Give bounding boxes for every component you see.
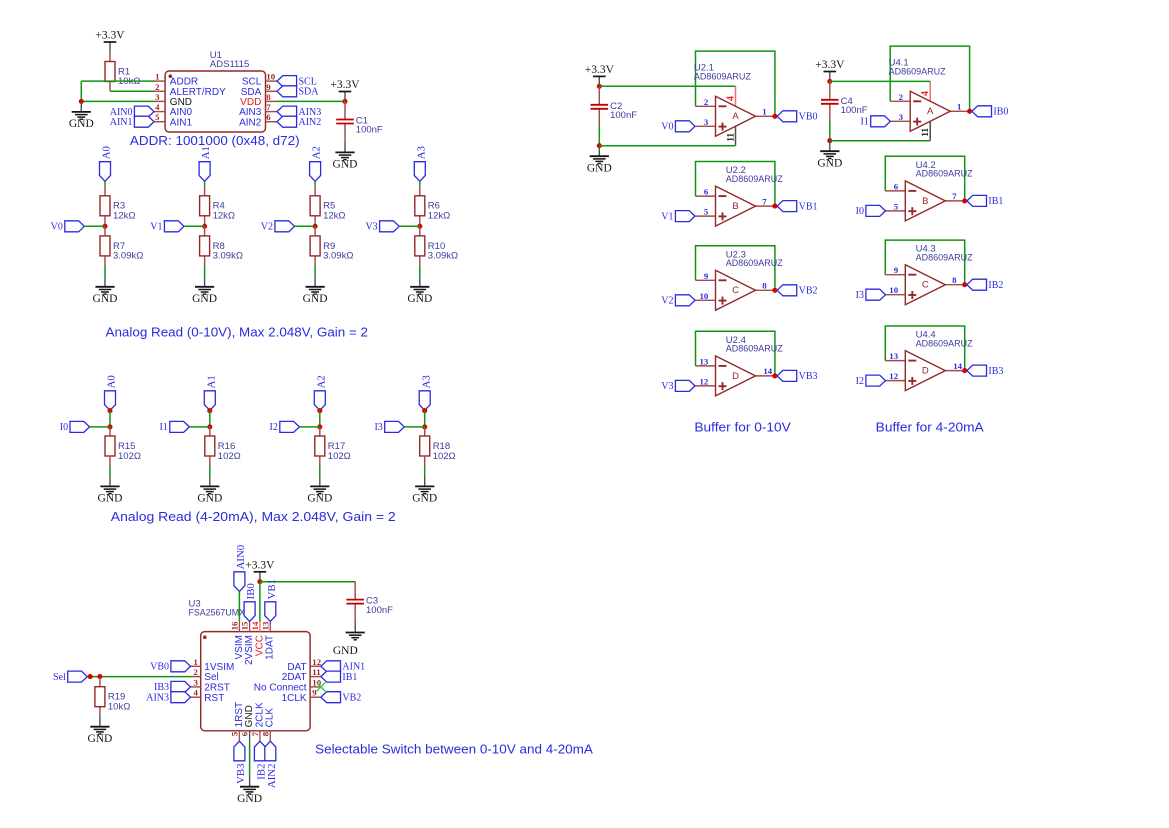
svg-text:2CLK: 2CLK [254,702,265,727]
svg-text:9: 9 [312,688,317,698]
svg-text:AIN1: AIN1 [110,117,133,128]
svg-text:5: 5 [155,112,160,122]
svg-text:A1: A1 [205,375,217,388]
svg-text:2: 2 [193,667,198,677]
svg-text:A0: A0 [101,146,113,159]
svg-text:11: 11 [727,133,737,142]
svg-text:IB1: IB1 [342,672,357,683]
svg-text:10: 10 [700,291,709,301]
svg-text:12kΩ: 12kΩ [323,210,345,221]
svg-text:3.09kΩ: 3.09kΩ [113,251,143,262]
svg-text:GND: GND [197,493,222,505]
svg-text:102Ω: 102Ω [328,451,351,462]
svg-text:A: A [927,106,934,117]
svg-text:GND: GND [333,645,358,657]
svg-text:IB0: IB0 [993,107,1008,118]
svg-text:VB2: VB2 [799,286,818,297]
svg-text:Analog Read (0-10V), Max 2.048: Analog Read (0-10V), Max 2.048V, Gain = … [106,324,369,339]
svg-text:100nF: 100nF [366,605,393,616]
svg-text:1: 1 [155,72,159,82]
svg-text:1: 1 [193,657,197,667]
svg-text:AD8609ARUZ: AD8609ARUZ [889,67,946,78]
svg-text:11: 11 [312,667,320,677]
svg-text:A: A [732,111,739,122]
svg-text:+3.3V: +3.3V [330,79,360,91]
svg-text:4: 4 [193,688,198,698]
svg-text:D: D [922,366,929,377]
svg-text:1DAT: 1DAT [265,635,276,660]
svg-text:I2: I2 [856,376,864,387]
svg-text:1CLK: 1CLK [282,693,307,704]
svg-text:12kΩ: 12kΩ [113,210,135,221]
svg-text:VB3: VB3 [235,764,247,784]
svg-text:I1: I1 [860,117,868,128]
svg-text:100nF: 100nF [610,110,637,121]
svg-text:VB2: VB2 [342,692,361,703]
svg-text:I1: I1 [160,422,168,433]
svg-text:5: 5 [229,731,239,736]
svg-text:VB0: VB0 [799,112,818,123]
svg-text:16: 16 [229,621,239,630]
svg-text:12kΩ: 12kΩ [428,210,450,221]
svg-text:A2: A2 [315,375,327,388]
svg-text:V0: V0 [51,222,63,233]
svg-text:14: 14 [953,361,962,371]
svg-text:D: D [732,371,739,382]
svg-text:100nF: 100nF [356,125,383,136]
svg-text:IB3: IB3 [988,366,1003,377]
svg-text:7: 7 [762,196,767,206]
svg-text:GND: GND [587,162,612,174]
svg-text:FSA2567UMX: FSA2567UMX [189,608,246,619]
svg-text:7: 7 [952,191,957,201]
svg-text:B: B [732,201,738,212]
svg-text:GND: GND [192,293,217,305]
svg-text:1: 1 [957,102,961,112]
svg-text:AD8609ARUZ: AD8609ARUZ [916,252,973,263]
svg-text:2: 2 [704,97,709,107]
svg-text:V0: V0 [661,122,673,133]
svg-text:CLK: CLK [265,708,276,728]
svg-text:C: C [922,280,929,291]
svg-text:Analog Read (4-20mA), Max 2.04: Analog Read (4-20mA), Max 2.048V, Gain =… [111,509,396,524]
svg-text:GND: GND [93,293,118,305]
svg-text:AIN2: AIN2 [266,764,278,789]
svg-text:+3.3V: +3.3V [585,64,615,76]
svg-text:2: 2 [899,92,904,102]
svg-text:14: 14 [250,621,260,630]
svg-text:GND: GND [817,157,842,169]
svg-text:6: 6 [704,187,709,197]
svg-text:VB1: VB1 [266,579,278,599]
svg-text:GND: GND [412,493,437,505]
svg-text:C: C [732,285,739,296]
svg-text:V2: V2 [661,296,673,307]
svg-text:13: 13 [260,621,270,630]
svg-text:10: 10 [889,285,898,295]
svg-text:V3: V3 [365,222,377,233]
svg-text:3: 3 [193,677,198,687]
svg-text:11: 11 [921,128,931,137]
svg-text:8: 8 [260,731,270,736]
svg-text:V1: V1 [150,222,162,233]
svg-text:4: 4 [920,91,931,96]
svg-text:A1: A1 [200,146,212,159]
svg-text:VB3: VB3 [799,371,818,382]
svg-text:13: 13 [889,351,898,361]
svg-text:AD8609ARUZ: AD8609ARUZ [726,258,783,269]
svg-text:3: 3 [155,92,160,102]
svg-text:100nF: 100nF [841,105,868,116]
svg-text:8: 8 [762,281,767,291]
svg-text:3: 3 [704,117,709,127]
svg-text:102Ω: 102Ω [218,451,241,462]
svg-text:3.09kΩ: 3.09kΩ [428,251,458,262]
svg-text:AIN3: AIN3 [146,692,169,703]
svg-text:A3: A3 [420,375,432,388]
svg-text:B: B [922,196,928,207]
svg-text:AD8609ARUZ: AD8609ARUZ [694,72,751,83]
svg-text:5: 5 [704,207,709,217]
svg-text:GND: GND [303,293,328,305]
svg-text:4: 4 [725,96,736,101]
svg-text:8: 8 [952,275,957,285]
svg-text:10kΩ: 10kΩ [108,701,130,712]
svg-text:AIN2: AIN2 [299,117,322,128]
svg-text:AD8609ARUZ: AD8609ARUZ [726,344,783,355]
svg-text:8: 8 [266,92,271,102]
svg-text:7: 7 [250,731,260,736]
svg-text:5: 5 [894,201,899,211]
svg-text:4: 4 [155,102,160,112]
svg-text:IB2: IB2 [988,280,1003,291]
svg-text:ADS1115: ADS1115 [210,59,250,70]
svg-text:I2: I2 [270,422,278,433]
svg-text:6: 6 [266,112,271,122]
svg-text:I3: I3 [374,422,382,433]
svg-text:I0: I0 [60,422,68,433]
svg-text:9: 9 [266,82,271,92]
svg-text:GND: GND [307,493,332,505]
svg-text:A3: A3 [415,146,427,159]
svg-text:12: 12 [889,371,898,381]
svg-text:GND: GND [69,118,94,130]
svg-text:VB0: VB0 [150,662,169,673]
svg-text:A2: A2 [311,146,323,159]
svg-text:15: 15 [240,621,250,630]
svg-text:3.09kΩ: 3.09kΩ [323,251,353,262]
svg-text:VB1: VB1 [799,201,818,212]
svg-text:V3: V3 [661,381,673,392]
svg-text:IB0: IB0 [245,583,257,599]
svg-text:GND: GND [333,159,358,171]
svg-text:102Ω: 102Ω [433,451,456,462]
svg-text:3: 3 [899,112,904,122]
svg-text:7: 7 [266,102,271,112]
svg-text:AIN1: AIN1 [170,117,193,128]
svg-text:+3.3V: +3.3V [815,59,845,71]
svg-text:A0: A0 [106,375,118,388]
svg-text:GND: GND [237,793,262,805]
svg-text:+3.3V: +3.3V [245,559,275,571]
svg-text:AD8609ARUZ: AD8609ARUZ [916,169,973,180]
svg-text:Buffer for 4-20mA: Buffer for 4-20mA [876,420,984,435]
svg-text:ADDR: 1001000 (0x48, d72): ADDR: 1001000 (0x48, d72) [130,133,300,148]
svg-text:AD8609ARUZ: AD8609ARUZ [916,338,973,349]
svg-text:13: 13 [700,356,709,366]
svg-text:Selectable Switch between 0-10: Selectable Switch between 0-10V and 4-20… [315,742,593,757]
svg-text:12kΩ: 12kΩ [213,210,235,221]
svg-text:I0: I0 [856,206,864,217]
svg-text:9: 9 [894,265,899,275]
svg-text:V1: V1 [661,211,673,222]
svg-text:12: 12 [312,657,321,667]
svg-text:IB1: IB1 [988,196,1003,207]
svg-text:6: 6 [240,731,250,736]
svg-text:12: 12 [700,376,709,386]
svg-text:GND: GND [407,293,432,305]
svg-text:Buffer for 0-10V: Buffer for 0-10V [694,420,791,435]
svg-text:AIN2: AIN2 [239,117,262,128]
svg-text:14: 14 [763,366,772,376]
svg-text:102Ω: 102Ω [118,451,141,462]
svg-text:1: 1 [762,107,766,117]
svg-text:I3: I3 [856,290,864,301]
svg-text:SDA: SDA [299,87,320,98]
svg-text:GND: GND [87,733,112,745]
svg-text:Sel: Sel [53,672,66,683]
svg-text:GND: GND [98,493,123,505]
svg-text:AD8609ARUZ: AD8609ARUZ [726,174,783,185]
svg-text:9: 9 [704,271,709,281]
svg-text:6: 6 [894,181,899,191]
svg-text:RST: RST [204,693,224,704]
svg-text:VCC: VCC [254,635,265,656]
svg-text:3.09kΩ: 3.09kΩ [213,251,243,262]
svg-text:2: 2 [155,82,160,92]
svg-text:10: 10 [266,72,275,82]
svg-text:V2: V2 [261,222,273,233]
svg-text:+3.3V: +3.3V [95,30,125,42]
